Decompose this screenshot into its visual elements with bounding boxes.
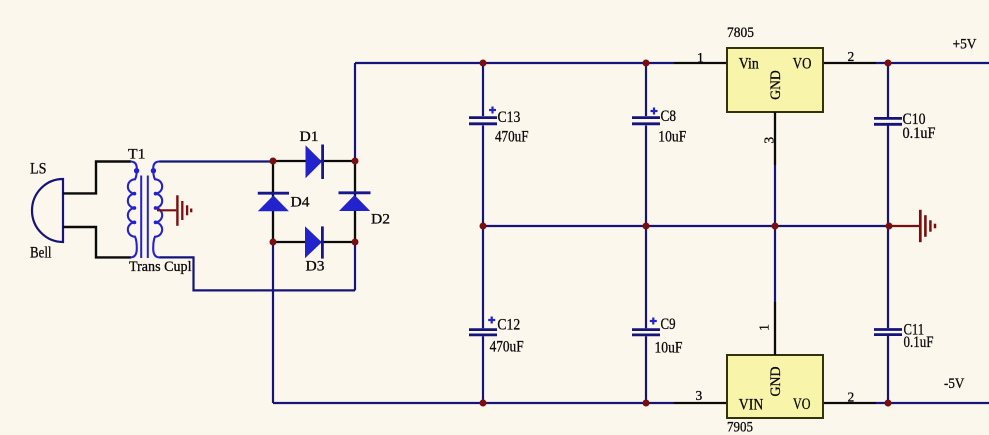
phasing dot secondary: [151, 168, 156, 173]
svg-text:7805: 7805: [727, 25, 754, 41]
diode D2: [339, 193, 371, 211]
junction top rail at C8: [643, 60, 650, 67]
transformer T1: [128, 162, 162, 259]
pin 2 stub 7805: [823, 62, 876, 64]
wire bridge top side: [273, 160, 355, 162]
svg-text:C13: C13: [498, 109, 521, 126]
loudspeaker LS (Bell symbol): [32, 179, 63, 242]
wire 7905 GND to middle rail (navy): [774, 226, 776, 302]
svg-text:3: 3: [696, 388, 703, 403]
svg-text:3: 3: [762, 137, 777, 144]
svg-text:VIN: VIN: [739, 397, 764, 414]
pin 1 stub 7805: [674, 62, 727, 64]
junction middle rail at C10/C11: [886, 223, 893, 230]
wire bell top to step (black): [63, 162, 131, 194]
svg-text:Vin: Vin: [739, 56, 759, 73]
capacitor C13: [469, 107, 497, 124]
capacitor C9 wires: [645, 226, 647, 328]
junction bottom rail at C9: [643, 400, 650, 407]
junction bottom rail at C12: [480, 400, 487, 407]
svg-text:+5V: +5V: [953, 37, 977, 53]
pin 3 stub 7805 GND: [774, 112, 776, 165]
wire bridge bottom side: [273, 241, 355, 243]
junction middle rail at GND pins: [772, 223, 779, 230]
bridge square (black wires): [273, 161, 355, 242]
wire middle rail (navy): [483, 225, 889, 227]
svg-text:Bell: Bell: [30, 245, 52, 262]
svg-text:2: 2: [848, 49, 855, 64]
svg-text:D1: D1: [300, 129, 319, 145]
svg-text:10uF: 10uF: [655, 340, 683, 357]
regulator 7805: [727, 48, 823, 112]
svg-text:-5V: -5V: [944, 376, 964, 392]
wire bridge right side: [354, 161, 356, 242]
secondary winding cusp beads: [154, 192, 158, 225]
svg-text:0.1uF: 0.1uF: [903, 125, 936, 142]
junction bridge top-right: [352, 158, 359, 165]
svg-text:1: 1: [757, 324, 772, 331]
svg-text:VO: VO: [793, 56, 812, 73]
svg-text:T1: T1: [128, 147, 146, 163]
wire top rail (navy): [355, 62, 674, 64]
capacitor C10: [874, 118, 902, 124]
capacitor C8 wires: [645, 63, 647, 116]
capacitor C11: [874, 330, 902, 335]
ground (middle rail right): [889, 210, 935, 242]
svg-text:7905: 7905: [727, 420, 753, 435]
svg-text:C8: C8: [661, 108, 677, 125]
regulator 7905: [727, 355, 823, 418]
junction bridge bottom-right: [352, 239, 359, 246]
primary winding (left): [128, 162, 137, 258]
core line right: [147, 176, 149, 259]
svg-text:2: 2: [848, 390, 855, 405]
wire bridge left side: [272, 161, 274, 242]
diode D1: [306, 145, 323, 180]
core line left: [140, 176, 142, 259]
svg-text:C9: C9: [661, 316, 676, 333]
capacitor C12: [469, 317, 497, 335]
junction bridge top-left: [270, 158, 277, 165]
secondary winding (right): [153, 162, 162, 258]
svg-text:0.1uF: 0.1uF: [904, 334, 934, 351]
wire secondary bottom step (navy): [160, 257, 356, 290]
wire secondary top to bridge (navy): [160, 160, 274, 162]
pin 2 stub 7905: [823, 402, 876, 404]
svg-text:10uF: 10uF: [658, 129, 686, 146]
svg-text:C12: C12: [497, 317, 520, 334]
diode D4: [258, 193, 289, 211]
capacitor C10 wires: [887, 63, 889, 117]
svg-text:1: 1: [697, 50, 704, 65]
wire bridge positive corner up to top rail (navy): [354, 63, 356, 161]
wire bridge negative corner down to bottom rail (navy): [272, 242, 274, 403]
svg-text:Trans Cupl: Trans Cupl: [129, 259, 192, 275]
capacitor C9: [632, 318, 660, 335]
ground (transformer secondary): [157, 195, 191, 226]
svg-text:GND: GND: [768, 70, 784, 100]
svg-text:D3: D3: [306, 259, 325, 275]
svg-text:D2: D2: [371, 212, 390, 228]
svg-text:VO: VO: [793, 396, 811, 413]
pin 1 stub 7905 GND: [774, 302, 776, 355]
svg-text:D4: D4: [291, 195, 311, 211]
wire bridge AC corner down (navy): [354, 242, 356, 290]
diode D3: [305, 226, 322, 258]
phasing dot primary: [134, 168, 139, 173]
pin 3 stub 7905: [674, 402, 727, 404]
junction middle rail at C13/C12: [480, 223, 487, 230]
wire bottom rail left (navy): [273, 402, 674, 404]
svg-text:GND: GND: [768, 366, 784, 396]
wire top rail right (navy): [876, 62, 989, 64]
capacitor C11 wires: [887, 226, 889, 328]
capacitor C12 wires: [482, 226, 484, 328]
capacitor C13 wires: [482, 63, 484, 116]
svg-text:470uF: 470uF: [495, 128, 529, 145]
svg-text:LS: LS: [30, 161, 47, 178]
junction bridge bottom-left: [270, 239, 277, 246]
capacitor C8: [632, 108, 660, 124]
junction top rail at C10: [885, 60, 892, 67]
wire bottom rail right (navy): [876, 402, 989, 404]
junction bottom rail at C11: [885, 400, 892, 407]
junction top rail at C13: [480, 60, 487, 67]
junction middle rail at C8/C9: [643, 223, 650, 230]
wire 7805 GND to middle rail (navy): [774, 165, 776, 226]
wire bell bottom to step (black): [63, 227, 131, 257]
svg-text:470uF: 470uF: [490, 339, 524, 356]
primary winding cusp beads: [133, 192, 137, 225]
